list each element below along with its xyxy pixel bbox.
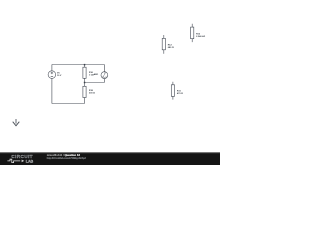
resistor R18 <box>83 86 86 97</box>
label R12 value <box>168 45 174 50</box>
wire V5 bottom stub <box>51 78 53 103</box>
svg-text:2.346 kΩ: 2.346 kΩ <box>196 35 205 38</box>
svg-text:680 Ω: 680 Ω <box>168 47 174 49</box>
svg-text:10 V: 10 V <box>57 75 62 77</box>
footer credit text <box>47 153 87 160</box>
CircuitLab logo <box>7 154 33 163</box>
wire mid rail to meter <box>85 82 105 84</box>
node junction top of R16 <box>84 64 86 66</box>
svg-text:AM1: AM1 <box>94 73 99 76</box>
resistor R16 <box>83 67 86 78</box>
label R18 value <box>89 90 95 95</box>
resistor R13 <box>191 24 194 42</box>
footer bar <box>0 152 220 165</box>
wire top rail <box>52 64 105 66</box>
wire meter top stub <box>103 65 105 72</box>
svg-text:470 Ω: 470 Ω <box>177 92 183 95</box>
resistor R11 <box>171 82 174 100</box>
wire meter bottom stub <box>103 78 105 82</box>
label V5 value <box>57 73 62 78</box>
resistor R12 <box>162 35 165 54</box>
label R13 value <box>196 33 205 38</box>
ammeter AM1 <box>101 72 108 79</box>
svg-text:LAB: LAB <box>26 159 34 163</box>
svg-text:330 Ω: 330 Ω <box>89 93 95 95</box>
ground <box>13 119 20 126</box>
label R11 value <box>177 91 183 96</box>
svg-text:mixedfish11 / Question 13: mixedfish11 / Question 13 <box>47 153 81 157</box>
label R16 value <box>89 72 94 77</box>
wire R16-R18 mid stubs <box>84 78 86 86</box>
voltage source V5 <box>48 71 56 79</box>
svg-text:http://circuitlab.com/c/499kge: http://circuitlab.com/c/499kge5c5pd <box>47 157 87 160</box>
node junction R16/R18/meter <box>84 82 86 84</box>
wire V5 top stub <box>51 65 53 71</box>
wire R18 bottom stub <box>84 98 86 104</box>
wire R16 top stub <box>84 65 86 68</box>
wire bottom rail <box>52 103 85 105</box>
